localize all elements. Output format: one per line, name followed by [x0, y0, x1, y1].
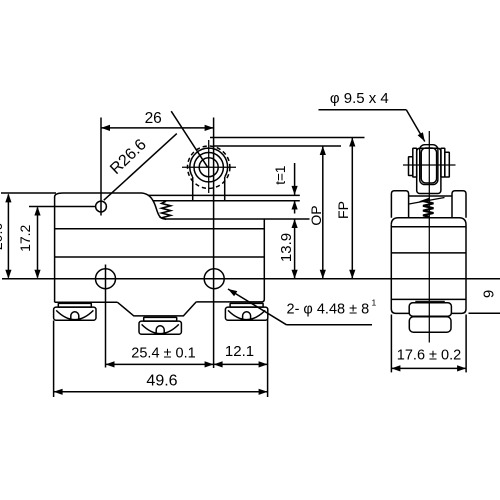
svg-text:26: 26: [145, 110, 162, 127]
svg-text:12.1: 12.1: [225, 343, 254, 360]
svg-text:9: 9: [480, 290, 497, 298]
svg-text:17.2: 17.2: [17, 224, 33, 251]
svg-text:20.6: 20.6: [0, 223, 5, 250]
svg-text:FP: FP: [335, 201, 351, 219]
svg-text:17.6 ± 0.2: 17.6 ± 0.2: [397, 348, 461, 364]
svg-text:49.6: 49.6: [146, 373, 177, 390]
svg-text:2- φ 4.48 ± 8: 2- φ 4.48 ± 8: [287, 302, 370, 318]
svg-text:OP: OP: [308, 205, 324, 225]
svg-text:t=1: t=1: [273, 166, 288, 185]
svg-text:25.4 ± 0.1: 25.4 ± 0.1: [131, 346, 195, 362]
svg-text:13.9: 13.9: [278, 233, 295, 262]
svg-text:φ 9.5 x 4: φ 9.5 x 4: [330, 90, 389, 107]
svg-text:1: 1: [372, 297, 377, 307]
